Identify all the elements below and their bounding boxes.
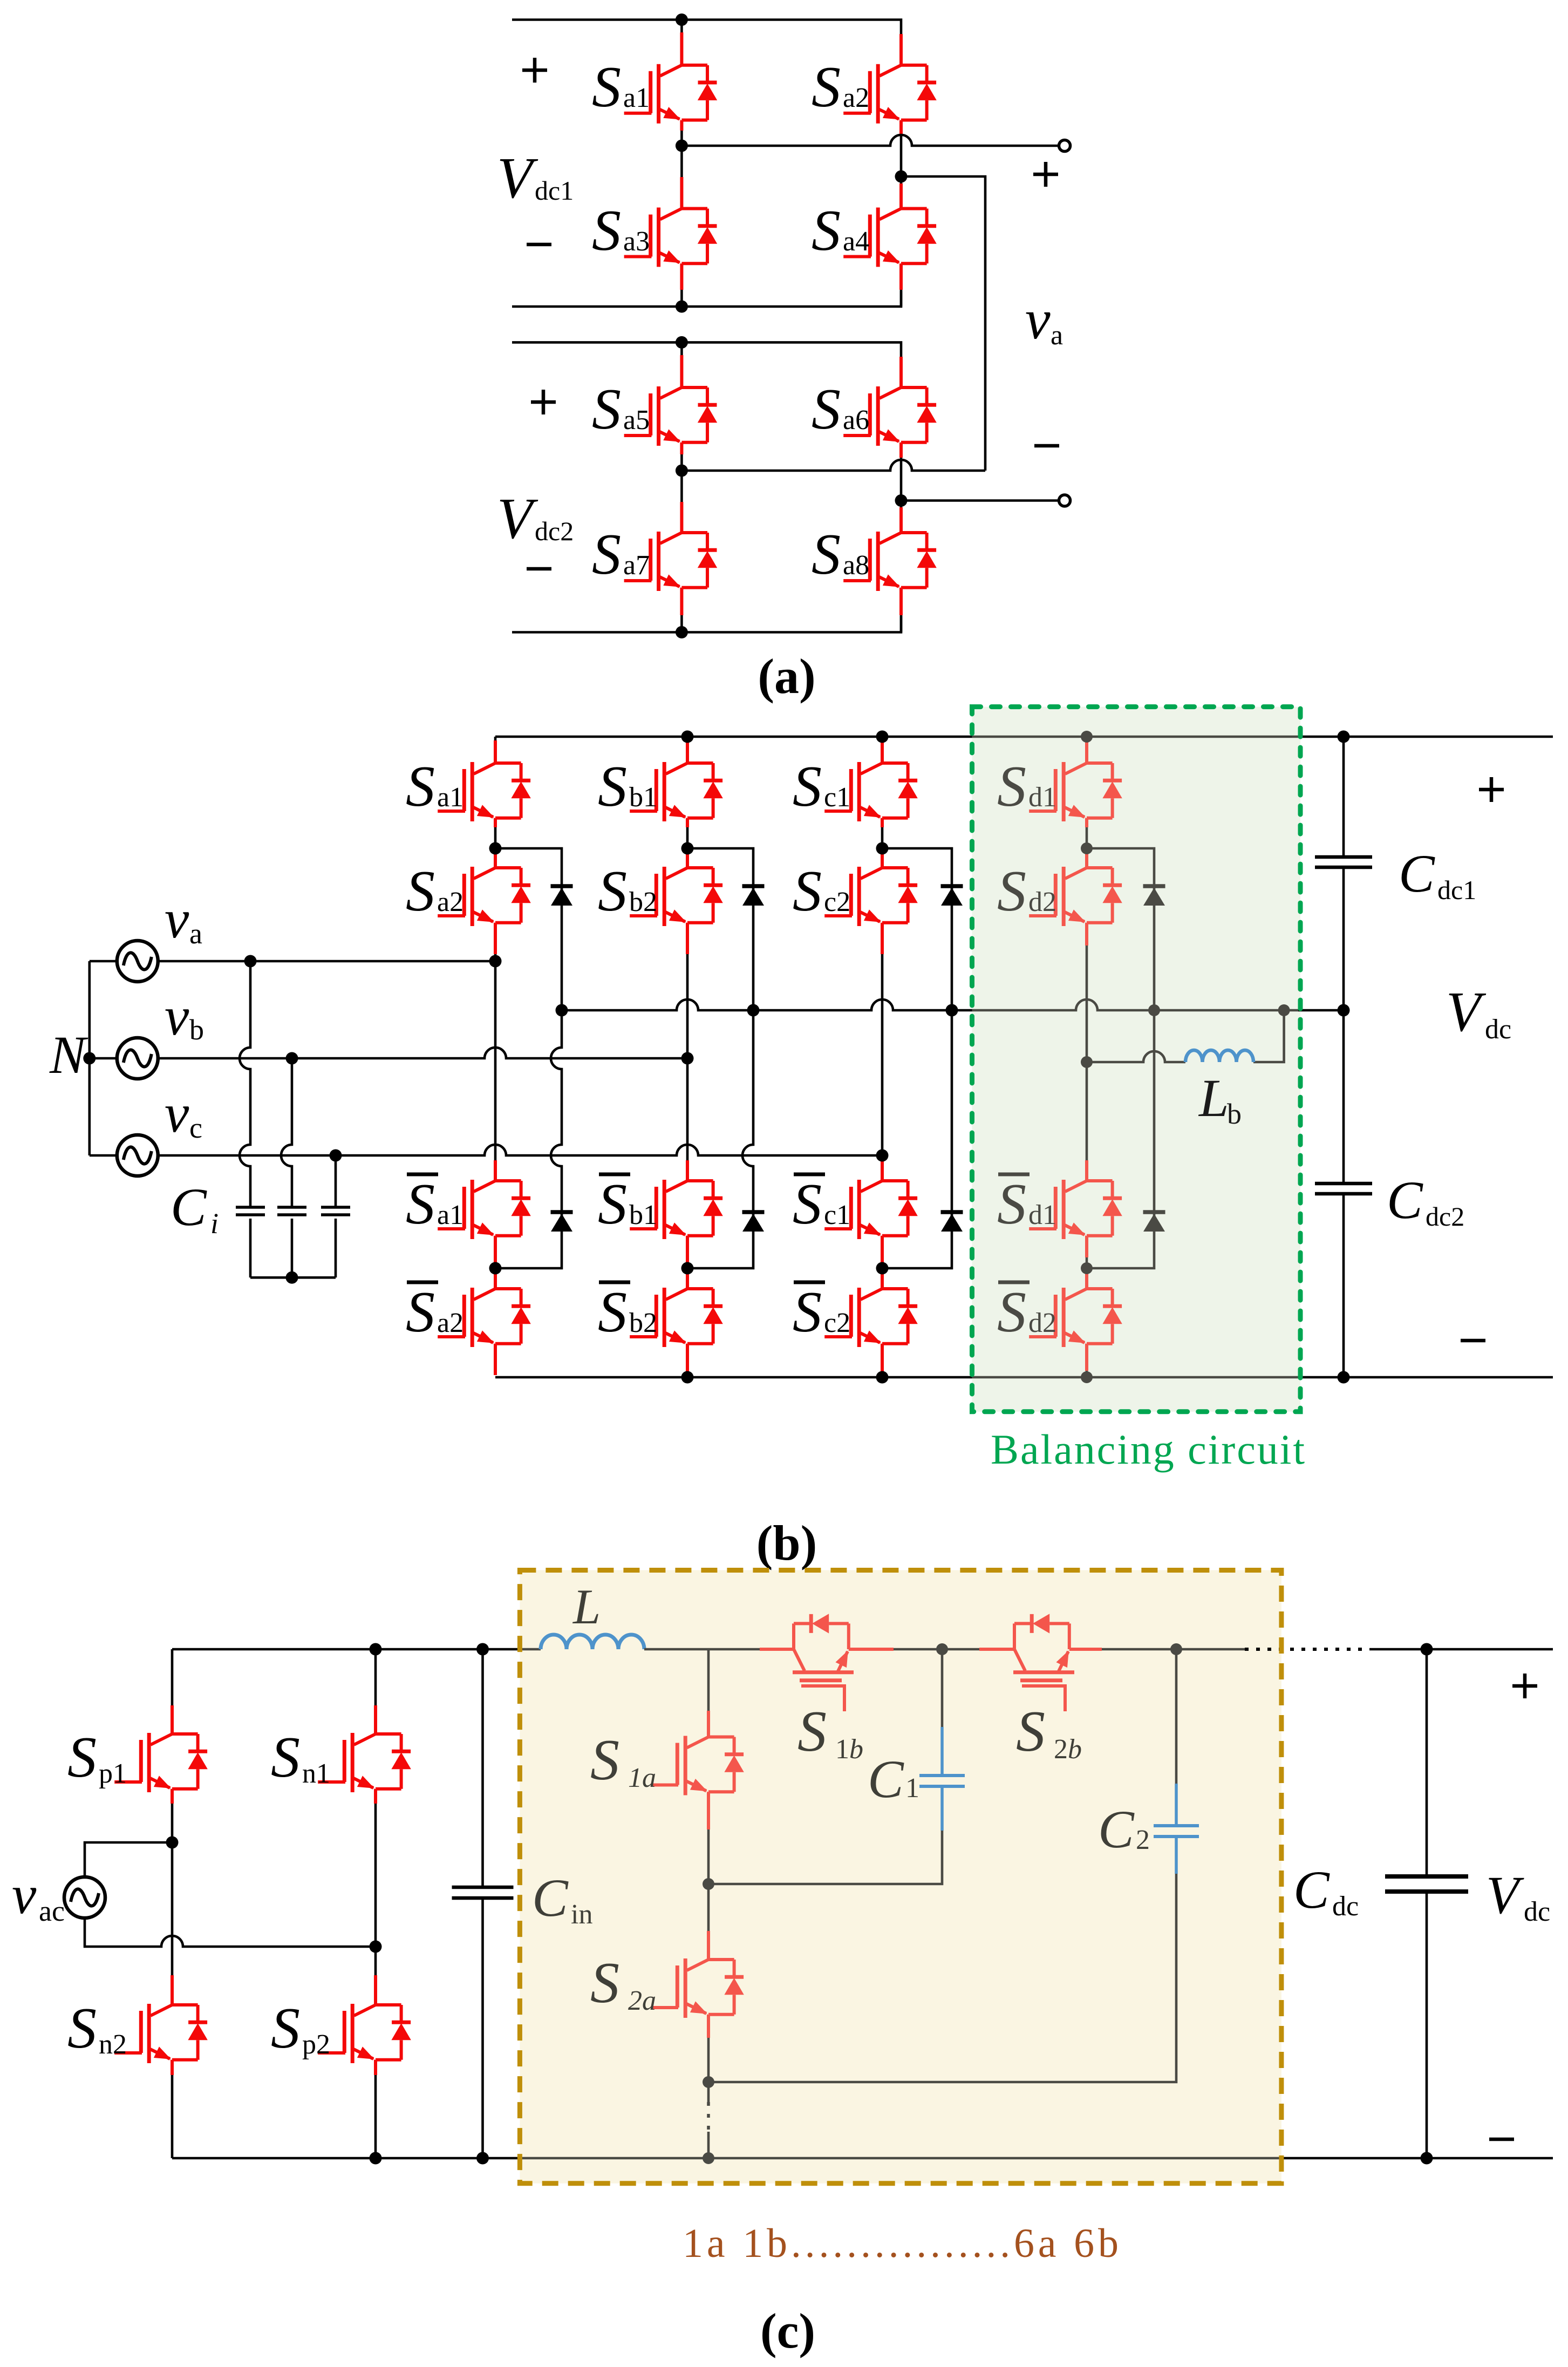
- wire: phase-a leg (black parts): [494, 737, 497, 1268]
- source va: [90, 960, 117, 963]
- source vac: [64, 1877, 105, 1918]
- svg-text:a5: a5: [623, 405, 650, 436]
- svg-text:(c): (c): [760, 2303, 815, 2358]
- svg-text:c2: c2: [824, 887, 850, 917]
- transistor S1b (horizontal): [793, 1614, 854, 1711]
- svg-text:L: L: [1198, 1068, 1229, 1128]
- node: top rail junction: [676, 13, 688, 26]
- node: top rail at S2b/C2 junction: [1170, 1643, 1182, 1655]
- wire: balancing leg (grey parts): [1086, 737, 1088, 1377]
- wire: bottom rail inside box (grey): [520, 2157, 1281, 2160]
- wire: top rail right (black): [1369, 1648, 1553, 1651]
- terminal: va - output: [1059, 495, 1071, 506]
- diode Da lower: [551, 1212, 573, 1232]
- svg-text:C: C: [171, 1177, 207, 1237]
- node: phase b to Ci tap: [286, 1052, 298, 1065]
- svg-text:C: C: [1098, 1799, 1135, 1859]
- svg-text:S: S: [997, 1280, 1026, 1344]
- wire: Ci bottom join: [250, 1276, 336, 1279]
- svg-text:c1: c1: [824, 1200, 850, 1230]
- wire: left leg of upper H-bridge (black parts): [680, 20, 683, 307]
- svg-text:S: S: [812, 377, 841, 441]
- diode Dc upper: [941, 886, 963, 906]
- wire: top dc rail of lower H-bridge: [512, 342, 901, 358]
- node: phase a to leg: [489, 955, 502, 968]
- svg-text:a8: a8: [843, 550, 869, 581]
- node: bottom rail at dc caps: [1338, 1371, 1350, 1384]
- transistor Sa2bar: [438, 1288, 531, 1347]
- wire: left bridge leg 1 (red leads): [171, 1705, 174, 2075]
- node: midpoint bus at diode b: [747, 1004, 760, 1017]
- wire: red leads of S1b: [760, 1648, 894, 1651]
- wire: clamp diode branch phase c: [882, 848, 952, 1268]
- svg-text:S: S: [67, 1725, 97, 1790]
- transistor Sd1: [1029, 762, 1122, 821]
- svg-text:V: V: [1486, 1865, 1524, 1925]
- svg-text:S: S: [590, 1951, 619, 2015]
- transistor Sd2: [1029, 867, 1122, 926]
- wire: S1a leg (salmon leads): [707, 1711, 710, 2038]
- svg-text:v: v: [12, 1865, 37, 1926]
- svg-text:c: c: [189, 1112, 202, 1144]
- wire: dc capacitor branch: [1342, 737, 1345, 1377]
- transistor Sn1: [318, 1733, 411, 1792]
- svg-text:S: S: [812, 522, 841, 587]
- svg-text:C: C: [1387, 1170, 1423, 1230]
- svg-text:d1: d1: [1028, 782, 1056, 813]
- wire: C2 branch (grey parts): [708, 1649, 1176, 2082]
- wire: top dc rail of upper H-bridge: [512, 20, 901, 36]
- label: + of Vdc (c): [1512, 1674, 1537, 1698]
- transistor Sb1bar: [630, 1180, 723, 1239]
- node: midpoint bus at diode a: [556, 1004, 568, 1017]
- node: Sc1bar collector junction: [876, 1262, 889, 1275]
- transistor Sb2: [630, 867, 723, 926]
- svg-text:S: S: [793, 1172, 822, 1236]
- wire: C1 branch (blue parts): [940, 1727, 944, 1831]
- svg-text:a1: a1: [437, 1200, 463, 1230]
- node: top rail at Cdc: [1421, 1643, 1433, 1656]
- node: Ci bottom: [286, 1271, 298, 1284]
- svg-text:2a: 2a: [628, 1985, 656, 2016]
- node: top rail at Cin: [476, 1643, 489, 1656]
- transistor Sa5: [624, 386, 718, 446]
- svg-text:dc1: dc1: [535, 175, 574, 206]
- svg-text:C: C: [1293, 1860, 1330, 1920]
- wire: top dc rail inside balancing box (grey): [972, 736, 1301, 738]
- wire: right leg of lower H-bridge (black parts): [900, 457, 903, 632]
- transistor Sn2: [114, 2004, 208, 2063]
- wire: S1a leg (grey parts): [707, 1649, 710, 2158]
- svg-text:C: C: [868, 1749, 904, 1809]
- transistor Sc2bar: [824, 1288, 918, 1347]
- wire: right leg of lower H-bridge (red leads): [899, 357, 903, 615]
- node: N junction: [83, 1052, 96, 1065]
- node: top rail at balancing leg: [1081, 731, 1093, 743]
- wire: phase-b leg (red leads): [686, 740, 689, 1374]
- svg-text:c1: c1: [824, 782, 850, 813]
- svg-text:b: b: [189, 1014, 204, 1046]
- node: phase a to Ci tap: [244, 955, 257, 968]
- wire: Lb link with hop over grey diode branch: [1087, 1010, 1284, 1062]
- capacitor Cin: [452, 1887, 514, 1898]
- svg-text:S: S: [997, 859, 1026, 923]
- svg-text:N: N: [49, 1025, 88, 1085]
- node: lower top rail junction: [676, 336, 688, 349]
- transistor Sa4: [843, 208, 937, 267]
- wire: Ci branch a with hops over phase b and c: [240, 961, 250, 1277]
- svg-text:dc1: dc1: [1437, 875, 1476, 905]
- transistor Sb1: [630, 762, 723, 821]
- svg-text:S: S: [793, 859, 822, 923]
- svg-text:S: S: [406, 1280, 435, 1344]
- svg-text:n1: n1: [302, 1758, 330, 1789]
- node: leg1 midpoint: [166, 1837, 179, 1849]
- node: midpoint bus at grey diode: [1148, 1004, 1160, 1016]
- wire: C1 branch (grey parts): [708, 1649, 942, 1884]
- svg-text:dc: dc: [1485, 1014, 1511, 1045]
- transistor Sa6: [843, 386, 937, 446]
- diode Dc lower: [941, 1212, 963, 1232]
- wire: C2 branch (blue parts): [1175, 1784, 1178, 1874]
- svg-text:S: S: [598, 754, 627, 819]
- label: + of Vdc: [1479, 777, 1504, 802]
- svg-text:Balancing circuit: Balancing circuit: [991, 1426, 1305, 1473]
- node: bottom rail at Cdc: [1421, 2152, 1433, 2165]
- transistor Sp1: [114, 1733, 208, 1792]
- svg-text:S: S: [271, 1996, 300, 2060]
- svg-text:a2: a2: [843, 83, 869, 113]
- node: top rail at leg2: [370, 1643, 382, 1656]
- label: - at va terminal: [1034, 445, 1059, 446]
- svg-text:S: S: [997, 754, 1026, 819]
- transistor Sc1bar: [824, 1180, 918, 1239]
- node: Sa1bar collector junction: [489, 1262, 502, 1275]
- label: + at va terminal: [1033, 162, 1058, 187]
- wire: vac to leg2 midpoint with hop over leg1: [85, 1918, 376, 1947]
- wire: lower bridge midpoint wire with hop over right leg: [681, 460, 985, 471]
- wire: left bridge leg 1 (black parts): [171, 1649, 174, 2158]
- label: - of Vdc (c): [1489, 2139, 1514, 2140]
- svg-text:a2: a2: [437, 887, 463, 917]
- wire: dc midpoint bus with hops over legs: [562, 999, 1344, 1010]
- svg-text:in: in: [571, 1899, 592, 1930]
- transistor S1a: [651, 1736, 744, 1795]
- svg-text:a2: a2: [437, 1308, 463, 1338]
- svg-text:1a: 1a: [628, 1763, 656, 1793]
- svg-text:dc2: dc2: [535, 516, 574, 546]
- wire: red leads of S2b: [979, 1648, 1102, 1651]
- svg-text:v: v: [165, 889, 189, 950]
- svg-text:v: v: [165, 1083, 189, 1144]
- diode Da upper: [551, 886, 573, 906]
- svg-text:2: 2: [1136, 1825, 1150, 1855]
- node: Lb to midpoint bus: [1278, 1004, 1290, 1016]
- svg-text:S: S: [1016, 1699, 1045, 1764]
- node: S1a/S2a midpoint: [703, 1878, 714, 1890]
- source vc: [90, 1154, 117, 1157]
- transistor S2b (horizontal): [1013, 1614, 1074, 1711]
- diode Dd upper (grey): [1143, 886, 1165, 906]
- transistor Sc1: [824, 762, 918, 821]
- svg-text:dc: dc: [1332, 1891, 1359, 1922]
- wire: top dc rail: [495, 736, 1553, 738]
- svg-text:S: S: [598, 1280, 627, 1344]
- svg-text:ac: ac: [39, 1895, 65, 1927]
- wire: top rail left (black): [172, 1648, 521, 1651]
- node: bottom rail at phase c leg: [876, 1371, 889, 1384]
- node: top rail at phase b leg: [681, 731, 694, 743]
- svg-text:2b: 2b: [1054, 1734, 1082, 1765]
- node: Lb tap on balancing leg: [1081, 1056, 1093, 1068]
- svg-text:S: S: [592, 522, 621, 587]
- node: Sa6/Sa8 midpoint tap: [895, 494, 908, 507]
- node: top rail at phase c leg: [876, 731, 889, 743]
- transistor Sa2 (b): [438, 867, 531, 926]
- wire: clamp diode branch phase b: [687, 848, 753, 1268]
- node: Sc1/Sc2 junction: [876, 842, 889, 855]
- transistor Sa3: [624, 208, 718, 267]
- svg-text:C: C: [1399, 844, 1435, 903]
- node: Sa5/Sa7 midpoint: [676, 465, 688, 477]
- node: phase c to leg: [876, 1150, 889, 1162]
- node: bottom rail at balancing leg: [1081, 1371, 1093, 1383]
- node: midpoint bus at diode c: [946, 1004, 958, 1017]
- node: midpoint bus at dc caps: [1338, 1004, 1350, 1017]
- capacitor Cdc1: [1315, 857, 1372, 867]
- diode Dd lower (grey): [1143, 1212, 1165, 1232]
- balancing circuit dashed border: [972, 707, 1301, 1412]
- wire: Sa2/Sa4 tap to right vertical connector: [901, 176, 985, 471]
- wire: bottom rail left (black): [172, 2157, 521, 2160]
- svg-text:a: a: [1051, 320, 1063, 351]
- node: phase b to leg: [681, 1052, 694, 1065]
- svg-text:a4: a4: [843, 226, 869, 257]
- svg-text:S: S: [793, 754, 822, 819]
- svg-text:S: S: [812, 55, 841, 119]
- svg-text:S: S: [406, 1172, 435, 1236]
- svg-text:S: S: [592, 55, 621, 119]
- svg-text:d2: d2: [1028, 887, 1056, 917]
- svg-text:V: V: [1446, 980, 1487, 1043]
- node: S2a emitter junction: [703, 2076, 714, 2088]
- svg-text:p1: p1: [99, 1758, 127, 1789]
- transistor Sd1bar: [1029, 1180, 1122, 1239]
- terminal: va + output: [1059, 140, 1071, 152]
- svg-text:S: S: [797, 1699, 827, 1764]
- svg-text:v: v: [165, 986, 189, 1047]
- wire: left leg of lower H-bridge (red leads): [680, 355, 683, 615]
- svg-text:S: S: [598, 859, 627, 923]
- wire: N bus vertical: [88, 961, 91, 1155]
- svg-text:b1: b1: [629, 1200, 657, 1230]
- transistor Sd2bar: [1029, 1288, 1122, 1347]
- transistor Sc2: [824, 867, 918, 926]
- svg-text:b2: b2: [629, 1308, 657, 1338]
- svg-text:c2: c2: [824, 1308, 850, 1338]
- wire: dc midpoint bus inside balancing box (grey): [972, 999, 1299, 1010]
- wire: phase b line with hop over phase-a leg: [158, 1048, 687, 1058]
- svg-text:S: S: [997, 1172, 1026, 1236]
- svg-text:V: V: [497, 146, 538, 210]
- svg-text:b1: b1: [629, 782, 657, 813]
- wire: vac to leg1 midpoint: [85, 1842, 172, 1877]
- svg-text:1b: 1b: [835, 1734, 863, 1765]
- wire: phase-a leg (red leads): [494, 740, 497, 1375]
- transistor S2a: [651, 1958, 744, 2018]
- wire: upper bridge output to + terminal with hop over right leg: [681, 135, 1059, 146]
- node: Sa1/Sa3 midpoint: [676, 140, 688, 152]
- label: - of Vdc1: [527, 244, 551, 245]
- svg-text:S: S: [592, 377, 621, 441]
- svg-text:a3: a3: [623, 226, 650, 257]
- node: Sd1bar collector junction: [1081, 1262, 1093, 1274]
- source vb: [90, 1057, 117, 1060]
- inductor Lb: [1185, 1050, 1253, 1062]
- node: bottom rail at leg2: [370, 2152, 382, 2165]
- svg-text:dc: dc: [1524, 1896, 1550, 1927]
- transistor Sa1bar: [438, 1180, 531, 1239]
- balancing circuit box fill: [972, 707, 1301, 1412]
- transistor Sa1: [624, 64, 718, 124]
- node: lower rail junction: [676, 301, 688, 313]
- svg-text:n2: n2: [99, 2029, 127, 2060]
- svg-text:a6: a6: [843, 405, 869, 436]
- wire: left bridge leg 2 (black parts): [374, 1649, 377, 2158]
- submodule box fill: [520, 1570, 1281, 2184]
- wire: bottom rail right (black): [1281, 2157, 1553, 2160]
- wire: lower dc rail of upper H-bridge: [512, 290, 901, 307]
- svg-text:S: S: [592, 199, 621, 263]
- node: lower bottom rail junction: [676, 626, 688, 638]
- capacitor Cia: [236, 1207, 265, 1215]
- wire: Cdc branch: [1426, 1649, 1428, 2158]
- node: Sb1bar collector junction: [681, 1262, 694, 1275]
- svg-text:S: S: [812, 199, 841, 263]
- node: top rail at S1b/C1 junction: [936, 1643, 948, 1655]
- svg-text:(b): (b): [756, 1515, 817, 1570]
- diode Db upper: [742, 886, 765, 906]
- capacitor Cib: [277, 1207, 306, 1215]
- node: bottom rail at phase b leg: [681, 1371, 694, 1384]
- wire: clamp diode branch balancing leg (grey): [1087, 848, 1154, 1268]
- submodule dashed border: [520, 1570, 1281, 2184]
- wire: bottom dc rail: [495, 1376, 1553, 1379]
- wire: bottom dc rail of lower H-bridge: [512, 616, 901, 632]
- svg-text:a: a: [189, 917, 202, 950]
- node: Sd1/Sd2 junction: [1081, 842, 1093, 854]
- diode Db lower: [742, 1212, 765, 1232]
- wire: phase-b leg (black parts): [686, 737, 689, 1377]
- capacitor C2: [1154, 1826, 1199, 1837]
- svg-text:v: v: [1025, 288, 1051, 351]
- wire: phase a line: [158, 960, 495, 963]
- svg-text:S: S: [271, 1725, 300, 1790]
- transistor Sa8: [843, 532, 937, 591]
- node: S2a leg at bottom rail: [703, 2152, 714, 2164]
- svg-text:C: C: [532, 1868, 569, 1928]
- wire: Sa6/Sa8 tap to - terminal: [901, 499, 1059, 502]
- svg-text:d1: d1: [1028, 1200, 1056, 1230]
- wire: left leg of upper H-bridge (red leads): [680, 32, 683, 290]
- capacitor Cdc2: [1315, 1183, 1372, 1194]
- svg-text:S: S: [793, 1280, 822, 1344]
- wire: clamp diode branch phase a: [495, 848, 562, 1268]
- wire: top rail inside box (grey): [644, 1648, 1245, 1651]
- capacitor Cic: [321, 1207, 350, 1215]
- label: + of Vdc2: [531, 390, 556, 414]
- transistor Sb2bar: [630, 1288, 723, 1347]
- node: Sb1/Sb2 junction: [681, 842, 694, 855]
- wire: phase-c leg (black parts): [881, 737, 884, 1377]
- label: - of Vdc: [1461, 1340, 1485, 1341]
- svg-text:S: S: [67, 1996, 97, 2060]
- svg-text:a1: a1: [623, 83, 650, 113]
- svg-text:S: S: [598, 1172, 627, 1236]
- svg-text:S: S: [406, 754, 435, 819]
- wire: phase c line with hops over phase-a and phase-b legs: [158, 1145, 882, 1155]
- node: Sa2/Sa4 midpoint tap: [895, 171, 908, 183]
- svg-text:p2: p2: [302, 2029, 330, 2060]
- svg-text:(a): (a): [758, 649, 815, 704]
- wire: dotted continuation of top rail: [1245, 1648, 1369, 1651]
- wire: S1a leg dotted segment: [707, 2102, 710, 2133]
- capacitor C1: [919, 1776, 965, 1786]
- node: bottom rail at Cin: [476, 2152, 489, 2165]
- svg-text:a1: a1: [437, 782, 463, 813]
- svg-text:1: 1: [905, 1773, 919, 1804]
- transistor Sp2: [318, 2004, 411, 2063]
- wire: Ci branch b with hop over phase c: [281, 1058, 292, 1277]
- node: Sa1/Sa2 junction: [489, 842, 502, 855]
- wire: Cin branch: [481, 1649, 484, 2158]
- transistor Sa7: [624, 532, 718, 591]
- wire: left leg of lower H-bridge (black parts): [680, 342, 683, 632]
- wire: bottom dc rail inside balancing box (grey): [972, 1376, 1301, 1379]
- wire: Ci branch c: [335, 1155, 337, 1277]
- svg-text:i: i: [210, 1207, 219, 1240]
- label: - of Vdc2: [527, 568, 551, 569]
- wire: right leg of upper H-bridge (red leads): [899, 34, 903, 290]
- svg-text:L: L: [572, 1579, 601, 1634]
- capacitor Cdc: [1385, 1876, 1468, 1892]
- wire: phase-c leg (red leads): [881, 740, 884, 1374]
- node: phase c to Ci tap: [330, 1150, 342, 1162]
- svg-text:a7: a7: [623, 550, 650, 581]
- transistor Sa2: [843, 64, 937, 124]
- svg-text:S: S: [590, 1728, 619, 1792]
- svg-text:V: V: [497, 487, 538, 551]
- node: leg2 midpoint: [370, 1941, 382, 1953]
- svg-text:d2: d2: [1028, 1308, 1056, 1338]
- svg-text:b2: b2: [629, 887, 657, 917]
- svg-text:S: S: [406, 859, 435, 923]
- wire: right leg of upper H-bridge (black parts): [900, 134, 903, 307]
- label: + of Vdc1: [522, 58, 547, 83]
- svg-text:dc2: dc2: [1426, 1201, 1464, 1232]
- svg-text:b: b: [1227, 1098, 1242, 1130]
- transistor Sa1 (b): [438, 762, 531, 821]
- wire: left bridge leg 2 (red leads): [374, 1705, 377, 2075]
- inductor L: [541, 1635, 644, 1649]
- node: top rail at dc caps: [1338, 731, 1350, 743]
- wire: balancing leg (salmon leads): [1085, 740, 1088, 1371]
